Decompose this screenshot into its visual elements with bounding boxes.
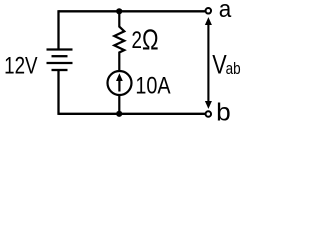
label Vab [212,50,227,80]
label 10A [135,72,171,99]
wire left vertical [57,10,59,49]
label b [216,99,231,126]
wire battery bottom lead [57,70,59,115]
label a [219,0,232,22]
svg-text:a: a [219,0,232,22]
resistor R1 (2 ohm) zigzag [114,11,124,71]
Vab arrowhead up (at a) [205,17,212,25]
terminal a open circle [206,8,212,14]
current source arrow [118,80,120,92]
svg-text:2: 2 [132,25,142,53]
Vab arrow shaft [207,24,209,102]
wire top horizontal [59,10,206,12]
svg-text:Ω: Ω [142,25,159,56]
battery V1 plates [47,50,73,71]
Vab arrowhead down (at b) [205,101,212,109]
node junction bottom [116,111,122,117]
svg-text:ab: ab [226,60,241,79]
wire current source to bottom [118,94,120,114]
svg-text:b: b [216,99,231,126]
node junction top [116,8,122,14]
current source I1 circle [108,71,132,95]
wire bottom horizontal [59,113,206,115]
label 12V [4,52,38,79]
svg-text:10A: 10A [135,72,171,99]
terminal b open circle [206,111,212,117]
svg-text:12V: 12V [4,52,38,79]
label 2 ohm [132,25,142,53]
